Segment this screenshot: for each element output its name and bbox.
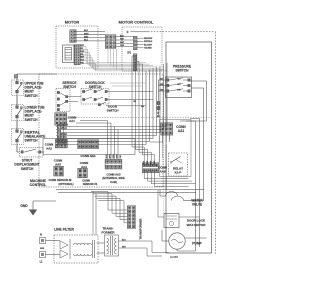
svg-text:AA1: AA1: [69, 119, 75, 123]
svg-text:SWITCH: SWITCH: [25, 94, 39, 98]
svg-text:CONTROL: CONTROL: [30, 183, 47, 187]
svg-text:YEL/RED: YEL/RED: [144, 48, 152, 50]
svg-text:(OPTIONAL): (OPTIONAL): [58, 182, 73, 186]
svg-text:WHT: WHT: [84, 33, 89, 35]
svg-text:CONN SENSOR #2: CONN SENSOR #2: [49, 178, 72, 182]
svg-text:LINE FILTER: LINE FILTER: [54, 228, 74, 232]
svg-text:RED: RED: [113, 154, 115, 159]
svg-text:CAB): CAB): [110, 180, 117, 184]
svg-text:(EXTERNAL SIDE: (EXTERNAL SIDE: [102, 176, 125, 180]
svg-text:VIO: VIO: [57, 131, 61, 133]
svg-text:AA6: AA6: [159, 170, 165, 174]
svg-text:SWITCH: SWITCH: [107, 108, 119, 112]
svg-text:LA-1413: LA-1413: [170, 256, 179, 259]
svg-text:WHT: WHT: [110, 153, 112, 158]
svg-text:N: N: [40, 234, 42, 237]
svg-text:SWITCH: SWITCH: [25, 139, 39, 143]
svg-text:18: 18: [157, 113, 159, 115]
svg-text:TAN/RED: TAN/RED: [57, 133, 67, 136]
svg-text:WHT/BLK: WHT/BLK: [144, 41, 153, 43]
svg-text:VALVE: VALVE: [192, 203, 202, 207]
svg-text:JP1: JP1: [127, 53, 132, 55]
svg-text:TRANSFORMER: TRANSFORMER: [139, 218, 143, 239]
svg-text:CONN EE1: CONN EE1: [80, 154, 96, 158]
svg-text:K1-P: K1-P: [175, 171, 182, 175]
svg-text:SWITCH: SWITCH: [175, 69, 189, 73]
svg-text:CONN: CONN: [82, 179, 90, 183]
svg-text:BLK: BLK: [106, 154, 108, 159]
svg-text:SWITCH: SWITCH: [25, 118, 39, 122]
svg-text:BRN: BRN: [80, 57, 85, 59]
svg-text:AA5: AA5: [55, 162, 61, 166]
svg-text:GND: GND: [20, 204, 28, 208]
svg-text:RED/WHT: RED/WHT: [144, 38, 153, 40]
svg-text:AA1: AA1: [178, 129, 185, 133]
svg-text:ORG: ORG: [80, 51, 85, 53]
svg-text:ORG: ORG: [160, 90, 165, 92]
svg-text:MOTOR CONTROL: MOTOR CONTROL: [119, 20, 154, 25]
svg-text:CONN AA3: CONN AA3: [107, 173, 121, 177]
svg-text:SENSOR #1: SENSOR #1: [83, 182, 98, 186]
svg-text:FORMER: FORMER: [102, 231, 116, 235]
svg-text:ORG: ORG: [120, 45, 125, 47]
svg-text:BLU/GRY: BLU/GRY: [144, 44, 153, 46]
svg-text:GRY/WHT: GRY/WHT: [57, 125, 68, 127]
svg-text:MOTOR: MOTOR: [65, 20, 80, 25]
svg-text:BLU: BLU: [84, 40, 89, 42]
svg-text:SWITCH: SWITCH: [21, 167, 34, 171]
svg-text:PUMP: PUMP: [192, 242, 202, 246]
svg-text:RED: RED: [84, 36, 89, 38]
svg-text:WAX MOTOR: WAX MOTOR: [187, 223, 207, 227]
svg-text:GRN: GRN: [40, 248, 45, 250]
svg-text:D: D: [127, 30, 129, 34]
svg-text:VIO: VIO: [120, 155, 122, 159]
svg-text:GRY: GRY: [117, 154, 119, 159]
svg-text:BLU/BLK: BLU/BLK: [57, 128, 67, 130]
svg-text:BLK: BLK: [84, 30, 89, 32]
svg-text:AA2: AA2: [46, 146, 52, 150]
